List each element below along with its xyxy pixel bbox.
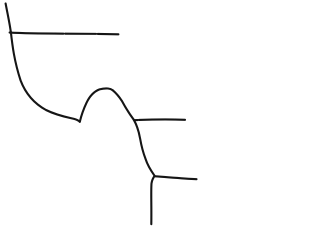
wire: large concave curve from corner down to notch xyxy=(11,32,80,122)
wire: top horizontal line xyxy=(10,33,119,35)
wire: rounded bump (hill), left flank and plateau xyxy=(80,88,113,121)
wire: middle-right horizontal line xyxy=(134,118,185,121)
wire: jog and bottom vertical line xyxy=(151,176,154,224)
wire: lower-right horizontal line xyxy=(155,176,196,179)
wire: top-left vertical line xyxy=(6,4,11,32)
wire: bump right flank down to middle junction xyxy=(113,90,134,120)
wire: diagonal descending line to lower junction xyxy=(134,120,155,176)
